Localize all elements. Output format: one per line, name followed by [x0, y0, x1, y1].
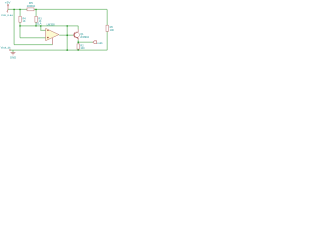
- wire x20 lower vertical: [19, 26, 21, 38]
- junction node x67 output: [66, 34, 68, 36]
- junction node x67 mid: [66, 25, 68, 27]
- junction node emitter: [77, 41, 79, 43]
- unconnected end marker: [9, 49, 10, 50]
- junction node x36 top: [35, 9, 37, 11]
- svg-text:10K: 10K: [110, 29, 115, 32]
- svg-text:GND: GND: [10, 55, 16, 59]
- junction node x67 ground: [66, 49, 68, 51]
- wire emitter node to label: [78, 41, 93, 43]
- power symbol +5V: [7, 4, 9, 9]
- junction node x14 top: [13, 9, 15, 11]
- svg-text:1K: 1K: [23, 20, 26, 23]
- wire x67 vertical to ground: [66, 26, 68, 50]
- wire collector drop x78.2: [77, 26, 79, 30]
- svg-text:100: 100: [80, 47, 85, 50]
- junction node x20 mid: [19, 25, 21, 27]
- svg-text:out1: out1: [97, 41, 103, 45]
- svg-text:Vout_dc: Vout_dc: [1, 45, 12, 49]
- resistor R2: [77, 44, 79, 49]
- wire R4 top stub: [19, 9, 21, 16]
- svg-text:U1A: U1A: [36, 22, 42, 26]
- wire feedback horizontal y25.7: [20, 25, 78, 27]
- ground symbol GND: [11, 53, 16, 55]
- wire opamp output: [59, 34, 73, 36]
- junction node x20 top: [19, 9, 21, 11]
- op-amp U1: [46, 28, 59, 44]
- wire to opamp minus input: [41, 26, 46, 31]
- wire R2 bottom stub: [77, 48, 79, 51]
- power flag PWR_FLAG: [6, 9, 9, 12]
- wire R3 bottom stub: [35, 22, 37, 26]
- svg-text:100KΩ: 100KΩ: [27, 4, 36, 8]
- resistor R5: [27, 8, 34, 11]
- wire right vertical upper: [106, 9, 108, 25]
- wire right vertical lower: [106, 31, 108, 50]
- resistor R4: [19, 16, 21, 22]
- junction node x40.8 mid: [40, 25, 42, 27]
- wire left vertical x14: [13, 9, 15, 44]
- resistor R6: [106, 25, 108, 31]
- svg-text:PWR_FLAG: PWR_FLAG: [1, 14, 13, 17]
- wire emitter stub: [77, 40, 79, 43]
- svg-text:LM358: LM358: [47, 22, 55, 26]
- wire R4 bottom stub: [19, 22, 21, 26]
- svg-text:2N3904: 2N3904: [80, 36, 89, 39]
- svg-text:+5V: +5V: [5, 0, 12, 4]
- transistor Q1: [73, 29, 79, 39]
- wire opamp V- supply y44.6: [14, 44, 53, 46]
- junction node R2 ground: [77, 49, 79, 51]
- label OUT chevron: [93, 41, 97, 44]
- wire to opamp plus input: [20, 37, 45, 39]
- wire top +5V rail: [8, 8, 107, 10]
- wire R3 top stub: [35, 9, 37, 16]
- wire R2 top stub: [77, 42, 79, 44]
- wire GND symbol stub: [12, 50, 14, 52]
- junction node x36 mid: [35, 25, 37, 27]
- resistor R3: [35, 16, 37, 22]
- wire bottom GND rail: [10, 49, 107, 51]
